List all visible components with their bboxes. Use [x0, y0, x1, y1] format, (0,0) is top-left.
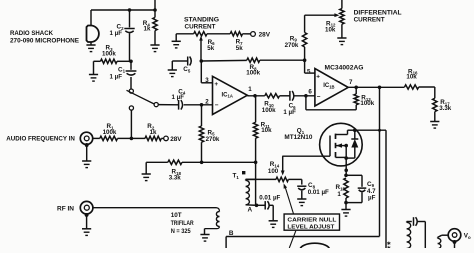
resistor R2 — [145, 136, 161, 140]
wire switch lower to R1/R2 node — [130, 110, 132, 138]
wire R9 top to R12 — [305, 14, 335, 16]
svg-text:3: 3 — [205, 77, 209, 84]
label T1 — [233, 171, 246, 180]
label R17 3.3k — [439, 99, 452, 112]
connector J2 ground — [82, 213, 91, 235]
label A — [248, 207, 253, 214]
label C2 1uF — [110, 24, 125, 38]
svg-text:10T: 10T — [171, 212, 182, 219]
Q1 source tap — [336, 146, 355, 159]
wire pin2 — [184, 104, 213, 106]
R14 wiper — [281, 156, 285, 175]
label R12 10k — [325, 20, 336, 33]
ground C5 — [168, 70, 177, 77]
svg-text:3.3k: 3.3k — [169, 174, 182, 181]
svg-text:+: + — [214, 81, 218, 88]
connector Vo ground lead — [453, 240, 457, 248]
label R2 1k — [147, 123, 157, 136]
svg-text:10k: 10k — [261, 127, 272, 134]
wire tank right — [417, 222, 425, 249]
capacitor C6 — [290, 91, 294, 101]
resistor R15 — [344, 178, 348, 203]
resistor R18 3.3k — [168, 160, 182, 164]
wire IC1A output — [247, 95, 264, 97]
svg-text:µF: µF — [368, 195, 376, 202]
wire T1 top line — [246, 178, 276, 180]
ground R17 — [430, 112, 439, 129]
node mic rail / R4 — [153, 8, 157, 12]
capacitor C9 branch — [346, 175, 366, 202]
wire R8 to R9 node — [260, 59, 305, 61]
node R9 bottom — [303, 58, 307, 62]
callout pointer to toroid — [289, 231, 296, 248]
label 0.01uF (A) — [259, 195, 280, 202]
capacitor C8 — [297, 179, 306, 198]
label R14 100 — [268, 161, 280, 175]
node mic rail / C2 — [128, 8, 132, 12]
svg-text:TRIFILAR: TRIFILAR — [171, 220, 194, 227]
callout box carrier null level adjust — [284, 214, 339, 231]
node pin2 / R5 — [200, 103, 204, 107]
svg-text:A: A — [248, 207, 253, 214]
wire J2 to T2 primary — [93, 208, 220, 212]
wire R8 feed — [201, 59, 247, 62]
label C6 1uF — [283, 102, 296, 115]
node rail/R5 — [200, 161, 204, 165]
label R11 10k — [261, 121, 272, 134]
label 28V mid — [170, 136, 182, 143]
node IC1A out — [253, 94, 257, 98]
connector J1 ground — [82, 143, 91, 168]
pin label 2 — [205, 98, 209, 105]
capacitor C2 wires — [129, 10, 131, 61]
node Q1 source exit — [344, 169, 348, 173]
ground T2 — [200, 235, 209, 242]
resistor R13 — [354, 87, 358, 105]
Q1 body arrow tap — [336, 143, 347, 147]
potentiometer R6 wiper — [199, 36, 203, 61]
svg-text:STANDING: STANDING — [184, 16, 219, 23]
Q1 body diode — [351, 130, 358, 158]
wire rail down to T1 — [255, 162, 257, 205]
op-amp IC1B — [315, 69, 348, 107]
label R8 100k — [246, 64, 260, 76]
svg-text:AUDIO FREQUENCY IN: AUDIO FREQUENCY IN — [6, 136, 75, 143]
wire R16 to R17 — [419, 87, 435, 98]
node Q1 drain-diode — [353, 128, 357, 132]
label Vo — [464, 232, 471, 239]
capacitor C1 — [126, 71, 137, 75]
wire supply feed from top edge — [154, 0, 156, 10]
svg-text:100: 100 — [268, 168, 279, 175]
node source/R15 — [344, 174, 348, 178]
wire IC1B output — [348, 86, 404, 88]
wire B drop — [225, 237, 227, 249]
pin label 3 — [205, 77, 209, 84]
resistor R5 — [199, 105, 203, 163]
label R13 100k — [360, 95, 374, 107]
Q1 source exit — [345, 158, 347, 175]
label C5 — [183, 66, 191, 73]
label C1 1uF — [110, 66, 126, 80]
label microphone type — [10, 30, 80, 45]
svg-text:IC1A: IC1A — [222, 92, 233, 98]
wire secondary to Vo — [442, 234, 448, 236]
label C8 0.01uF — [308, 182, 329, 196]
resistor R16 — [405, 85, 419, 89]
svg-text:28V: 28V — [170, 136, 182, 143]
svg-text:1k: 1k — [144, 26, 151, 33]
node R15/C9 bottom — [344, 201, 348, 205]
feedback rail IC1B — [306, 96, 356, 110]
svg-text:CURRENT: CURRENT — [185, 23, 216, 30]
label RF IN — [57, 206, 74, 213]
label R6 5k — [207, 39, 215, 52]
connector Vo — [448, 229, 461, 242]
bottom rail ground — [142, 162, 151, 180]
svg-text:1 µF: 1 µF — [110, 30, 123, 37]
footnote marks — [387, 241, 392, 252]
resistor R11 — [253, 96, 257, 163]
label MC34002AG — [325, 65, 364, 72]
svg-text:10k: 10k — [406, 74, 417, 81]
svg-text:5k: 5k — [236, 45, 243, 52]
transistor Q1 body circle — [320, 123, 363, 166]
label R1 100k — [103, 123, 117, 136]
label R15 1 — [336, 184, 346, 198]
resistor R9 — [302, 15, 306, 60]
inductor T3 secondary — [438, 235, 442, 249]
pin label 5 — [307, 69, 311, 76]
node drain junction — [378, 129, 381, 132]
Q1 gate bar — [329, 136, 331, 157]
Q1 gate lead — [282, 155, 330, 157]
capacitor C7 0.01uF — [257, 201, 274, 220]
capacitor C1 wires — [130, 61, 132, 89]
pin label 1 — [248, 86, 252, 93]
label 10T TRIFILAR N=325 — [171, 212, 194, 235]
resistor R10 — [265, 94, 280, 98]
wire R10 to C6 — [280, 95, 290, 97]
svg-text:MT12N10: MT12N10 — [284, 134, 312, 141]
connector J2 RF in — [80, 201, 93, 214]
label R7 5k — [236, 38, 244, 52]
wire node to R2 — [131, 137, 145, 139]
svg-text:0.01 µF: 0.01 µF — [259, 195, 280, 202]
wire mic rail top — [91, 10, 155, 25]
capacitor C10 — [414, 217, 418, 226]
inductor L2 — [407, 222, 412, 249]
ground lead R3 — [89, 61, 98, 81]
pin label 6 — [308, 89, 312, 96]
svg-text:5: 5 — [307, 69, 311, 76]
op-amp IC1A — [213, 76, 248, 114]
label IC1A — [222, 92, 233, 98]
svg-text:100k: 100k — [246, 69, 260, 76]
terminal 28V (top) — [251, 32, 256, 37]
wire T2 bottom to ground — [205, 227, 220, 235]
switch pole contact — [154, 103, 158, 107]
pin label 7 — [349, 79, 353, 86]
wire C5 to ground — [172, 61, 187, 70]
label differential current — [354, 10, 402, 24]
svg-text:1: 1 — [337, 191, 341, 198]
resistor R1 — [100, 136, 118, 140]
label R4 1k — [143, 20, 151, 32]
svg-text:1 µF: 1 µF — [172, 94, 185, 101]
label B — [229, 230, 234, 237]
terminal 28V (mid) — [161, 136, 168, 141]
potentiometer R12 track — [340, 0, 344, 38]
wire B rail — [226, 236, 379, 238]
label R3 100k — [102, 45, 116, 58]
svg-text:10k: 10k — [325, 26, 336, 33]
resistor R17 — [433, 98, 437, 111]
label standing current — [184, 16, 219, 30]
Q1 drain tap — [336, 130, 355, 134]
drain wire — [355, 129, 386, 131]
ground C7 — [269, 221, 278, 228]
label R10 100k — [262, 101, 276, 114]
svg-text:−: − — [317, 94, 321, 101]
svg-text:100k: 100k — [360, 100, 374, 107]
node out/drain drop — [378, 86, 382, 90]
svg-text:1 µF: 1 µF — [283, 109, 296, 116]
node Q1 body — [344, 144, 348, 148]
ground C8 — [297, 199, 306, 206]
svg-text:270k: 270k — [206, 136, 220, 143]
Q1 channel segments — [335, 134, 337, 158]
svg-text:LEVEL ADJUST: LEVEL ADJUST — [287, 225, 334, 231]
resistor R3 — [94, 59, 132, 63]
capacitor C4 — [179, 100, 183, 110]
toroid core (cut off at bottom) — [300, 243, 330, 253]
node Q1 source-diode — [344, 156, 348, 160]
svg-text:100k: 100k — [103, 129, 117, 136]
node rail/R11 — [254, 161, 258, 165]
label audio frequency in — [6, 136, 75, 143]
callout pointer to R14 — [284, 183, 294, 213]
node R1/R2/switch — [130, 137, 134, 141]
svg-text:3.3k: 3.3k — [439, 105, 452, 112]
wire pot R6 left to ground — [176, 34, 194, 41]
wire output net down to B rail — [379, 130, 381, 236]
resistor R8 — [247, 58, 260, 62]
inductor T2 trifilar winding — [216, 212, 219, 227]
ground below R4 — [150, 45, 159, 52]
label C4 1uF — [172, 88, 186, 101]
switch lower contact — [129, 106, 133, 110]
switch arm — [127, 90, 155, 104]
svg-text:+: + — [316, 73, 320, 80]
svg-text:0.01 µF: 0.01 µF — [308, 189, 329, 196]
svg-text:N = 325: N = 325 — [171, 228, 191, 235]
wire R6-R7 — [207, 33, 230, 35]
potentiometer R14 track — [276, 177, 288, 181]
label 28V top — [259, 31, 271, 38]
wire pin5 — [305, 60, 315, 73]
svg-text:5k: 5k — [207, 45, 214, 52]
wire R14 right — [288, 178, 301, 180]
svg-text:28V: 28V — [259, 31, 271, 38]
ground R15 — [341, 203, 350, 217]
svg-text:100k: 100k — [102, 51, 116, 58]
svg-text:RADIO SHACK: RADIO SHACK — [10, 30, 53, 37]
wire C6 to pin6 — [294, 95, 315, 97]
wire switch to C4 — [158, 104, 179, 106]
wire output to drain — [379, 87, 381, 130]
svg-text:−: − — [215, 102, 219, 109]
svg-text:CURRENT: CURRENT — [354, 17, 385, 24]
wire drain down to transformer — [385, 130, 387, 248]
svg-text:1 µF: 1 µF — [110, 74, 123, 81]
node out/R13 — [354, 86, 358, 90]
svg-text:1k: 1k — [150, 129, 157, 136]
wire rail mid — [182, 161, 256, 163]
wire R7 to 28V terminal — [243, 33, 251, 35]
label R5 270k — [206, 129, 220, 143]
resistor R4 — [153, 10, 157, 45]
wire J1 to R1 — [93, 137, 100, 139]
svg-text:7: 7 — [349, 79, 353, 86]
resistor R7 — [230, 32, 242, 36]
capacitor C5 — [188, 57, 192, 66]
ground pot R6 — [172, 41, 181, 48]
svg-text:100k: 100k — [262, 107, 276, 114]
svg-text:CARRIER NULL: CARRIER NULL — [287, 217, 336, 223]
inductor T1 winding — [246, 179, 257, 205]
wire rail left — [146, 161, 168, 163]
switch common contact — [129, 89, 133, 93]
wire R1 to node — [118, 137, 132, 139]
label R18 3.3k — [169, 168, 182, 181]
microphone MIC1 — [87, 26, 99, 45]
wiper arrow R12 — [334, 13, 339, 17]
svg-text:270k: 270k — [285, 42, 299, 49]
label C9 4.7uF — [367, 181, 376, 202]
svg-text:IC1B: IC1B — [323, 83, 334, 89]
svg-text:270-090 MICROPHONE: 270-090 MICROPHONE — [10, 38, 80, 45]
node C2/C1/R3 — [129, 60, 133, 64]
label Q1 — [284, 128, 312, 142]
ground R12 — [337, 38, 346, 45]
node pin6 — [304, 94, 308, 98]
node A — [255, 204, 259, 208]
potentiometer R6 track — [194, 32, 207, 36]
label R16 10k — [406, 68, 418, 80]
svg-text:1: 1 — [248, 86, 252, 93]
label R9 270k — [285, 35, 299, 49]
connector J1 audio in — [80, 132, 92, 144]
label IC1B — [323, 83, 334, 89]
wire node to pin3 — [201, 61, 212, 83]
ground below microphone — [86, 45, 95, 52]
svg-text:MC34002AG: MC34002AG — [325, 65, 364, 72]
svg-text:RF IN: RF IN — [57, 206, 74, 213]
capacitor C2 — [124, 29, 134, 33]
node standing-current junction — [200, 59, 204, 63]
svg-text:6: 6 — [308, 89, 312, 96]
